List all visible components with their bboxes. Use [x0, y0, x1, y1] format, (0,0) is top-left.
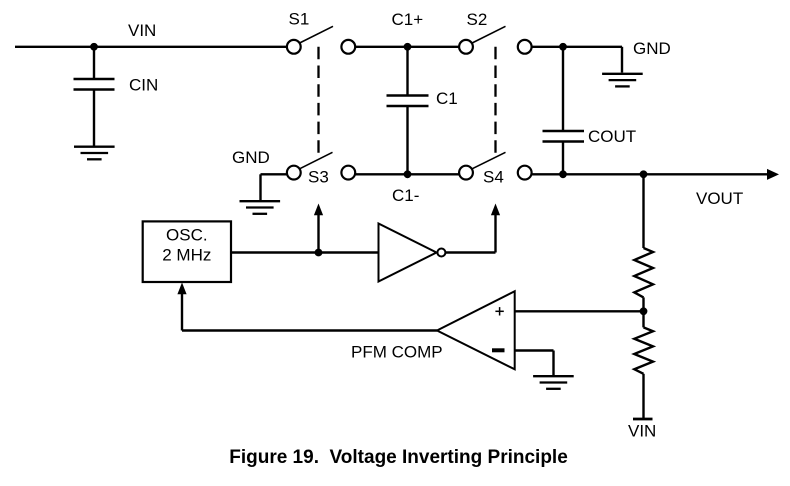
svg-text:VIN: VIN — [128, 21, 156, 40]
svg-text:VOUT: VOUT — [696, 189, 743, 208]
svg-text:S3: S3 — [308, 168, 329, 187]
svg-text:C1+: C1+ — [392, 10, 424, 29]
svg-text:COUT: COUT — [588, 127, 636, 146]
svg-text:GND: GND — [633, 39, 671, 58]
svg-text:S2: S2 — [467, 10, 488, 29]
svg-text:C1: C1 — [436, 89, 458, 108]
svg-text:CIN: CIN — [129, 76, 158, 95]
svg-text:VIN: VIN — [628, 422, 656, 441]
svg-text:2 MHz: 2 MHz — [162, 246, 211, 265]
svg-text:Figure 19. Voltage Inverting: Figure 19. Voltage Inverting Principle — [229, 447, 568, 468]
svg-text:S1: S1 — [289, 10, 310, 29]
svg-text:PFM COMP: PFM COMP — [351, 343, 443, 362]
svg-text:C1-: C1- — [392, 186, 419, 205]
svg-text:OSC.: OSC. — [166, 226, 208, 245]
svg-text:S4: S4 — [483, 168, 504, 187]
svg-text:GND: GND — [232, 148, 270, 167]
